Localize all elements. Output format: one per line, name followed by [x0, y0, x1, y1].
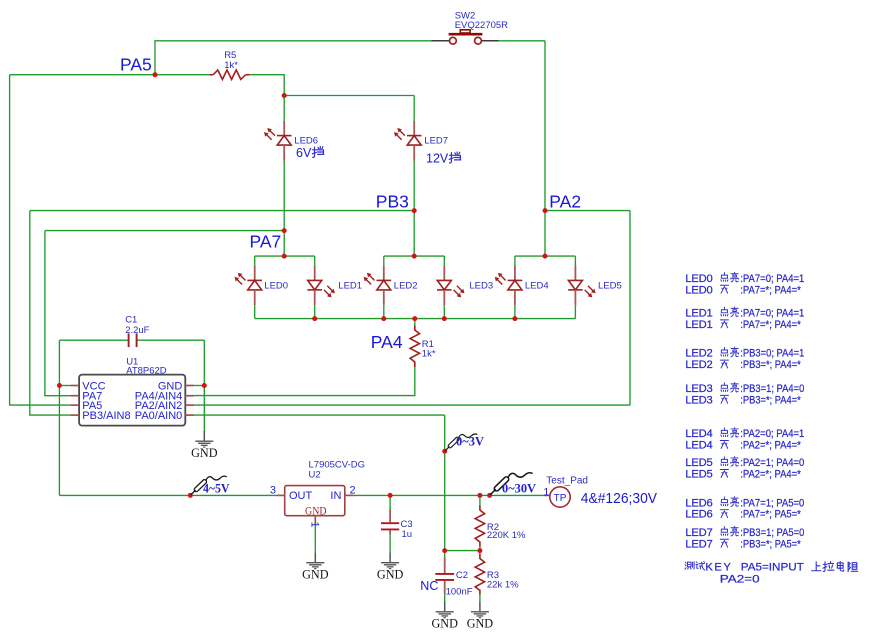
wire pair3 bracket: [515, 255, 576, 257]
LED LED3: [437, 266, 493, 306]
node after R5: [282, 93, 287, 98]
svg-text:U2: U2: [309, 469, 321, 480]
svg-text:Test_Pad: Test_Pad: [546, 475, 588, 486]
svg-text:AT8P62D: AT8P62D: [126, 365, 167, 376]
svg-text::PB3=0; PA4=1: :PB3=0; PA4=1: [740, 348, 804, 360]
text LED7 off condition: [685, 538, 801, 550]
text LED7 on condition: [685, 526, 804, 539]
capacitor C1: [125, 315, 149, 348]
wire node after R5 horizontal: [284, 95, 414, 97]
wire PA7 horizontal: [45, 230, 284, 232]
text test key note: [685, 561, 858, 573]
IC U1 AT8P62D: [70, 356, 194, 425]
svg-text:1: 1: [543, 486, 549, 498]
wire LED6 column lower to pair1 top: [283, 160, 285, 256]
node pair2 top: [412, 254, 417, 259]
svg-text:LED6: LED6: [685, 509, 712, 521]
text LED5 on condition: [685, 457, 804, 470]
svg-text:GND: GND: [305, 506, 327, 518]
node GND at U1: [202, 383, 207, 388]
svg-text:KEY: KEY: [705, 561, 731, 573]
wire LED0 top: [254, 256, 256, 266]
node 4~5V probe point: [188, 493, 193, 498]
wire R1 bottom to PA4 row: [194, 367, 414, 396]
svg-text:PA7: PA7: [250, 231, 282, 251]
probe 4~5V: [191, 476, 230, 495]
svg-text:LED0: LED0: [264, 281, 288, 292]
svg-text:1k*: 1k*: [224, 60, 238, 71]
svg-text::PB3=1; PA4=0: :PB3=1; PA4=0: [740, 383, 804, 395]
svg-text:PA5: PA5: [120, 54, 152, 74]
svg-text::PA2=*; PA4=*: :PA2=*; PA4=*: [740, 469, 801, 481]
svg-text::PA7=0; PA4=1: :PA7=0; PA4=1: [740, 273, 804, 285]
text LED2 off condition: [685, 359, 801, 371]
svg-text::PB3=*; PA4=*: :PB3=*; PA4=*: [740, 394, 801, 406]
ground symbol below U1: [191, 431, 218, 460]
wire PA7 into U1 pin: [44, 395, 70, 397]
wire VCC to U2 OUT: [59, 494, 277, 496]
wire LED6 column upper: [283, 96, 285, 122]
text LED3 off condition: [685, 394, 801, 406]
svg-text:PA2: PA2: [549, 191, 581, 211]
wire LED4 top: [514, 256, 516, 266]
resistor R2: [475, 506, 526, 547]
ground symbol below U2: [302, 552, 329, 581]
wire R2 bottom stub: [479, 546, 481, 551]
text LED5 off condition: [685, 469, 801, 481]
wire LED0 bottom: [254, 306, 256, 319]
annotation text block: LED truth table: [685, 272, 858, 585]
wire pair2 bracket: [384, 255, 445, 257]
LED LED7: [394, 121, 448, 161]
svg-text:6V: 6V: [296, 146, 312, 160]
svg-text:LED2: LED2: [685, 359, 712, 371]
svg-text:LED1: LED1: [685, 308, 712, 320]
svg-text:4~5V: 4~5V: [203, 480, 230, 495]
svg-text:NC: NC: [420, 579, 438, 593]
node pair1 top: [282, 254, 287, 259]
node 0~30V probe point: [487, 493, 492, 498]
node rail LED4: [512, 316, 517, 321]
wire PA2 branch horizontal: [545, 210, 630, 212]
svg-text:1k*: 1k*: [422, 349, 436, 360]
text LED1 off condition: [685, 319, 801, 331]
svg-text:GND: GND: [431, 617, 458, 631]
svg-text:EVQ22705R: EVQ22705R: [455, 20, 508, 31]
svg-text:PA2=0: PA2=0: [720, 574, 760, 586]
svg-text:GND: GND: [467, 617, 494, 631]
svg-text::PA7=*; PA4=*: :PA7=*; PA4=*: [740, 284, 801, 296]
wire PB3 left vertical: [29, 211, 31, 416]
wire R1 top stub: [414, 319, 416, 326]
svg-text:LED4: LED4: [685, 428, 712, 440]
text LED6 off condition: [685, 509, 801, 521]
svg-text:TP: TP: [554, 493, 567, 504]
wire bottom rail PA4: [255, 318, 576, 320]
svg-text:LED1: LED1: [338, 281, 362, 292]
svg-text::PA7=*; PA5=*: :PA7=*; PA5=*: [740, 509, 801, 521]
wire LED4 bottom: [514, 306, 516, 319]
svg-text:GND: GND: [191, 446, 218, 460]
capacitor C3: [381, 509, 413, 540]
wire PA2 vertical: [544, 41, 546, 256]
text LED0 on condition: [685, 272, 804, 285]
svg-text:LED6: LED6: [685, 497, 712, 509]
test pad TP Test_Pad: [543, 475, 588, 507]
node C3 tap: [388, 493, 393, 498]
text LED0 off condition: [685, 284, 801, 296]
svg-text:LED0: LED0: [685, 273, 712, 285]
svg-text:GND: GND: [302, 567, 329, 581]
svg-text::PA2=0; PA4=1: :PA2=0; PA4=1: [740, 428, 804, 440]
wire PA2 row into U1: [194, 404, 630, 406]
svg-text:2.2uF: 2.2uF: [125, 325, 149, 336]
text LED3 on condition: [685, 382, 804, 395]
LED LED0: [235, 266, 289, 306]
svg-text:LED2: LED2: [394, 281, 418, 292]
wire LED2 top: [383, 256, 385, 266]
wire LED1 top: [314, 256, 316, 266]
svg-text:LED1: LED1: [685, 319, 712, 331]
wire 0~3V vertical: [444, 415, 446, 550]
wire LED2 bottom: [383, 306, 385, 319]
node rail LED3: [442, 316, 447, 321]
resistor R5: [210, 50, 250, 79]
svg-text:1: 1: [309, 522, 321, 528]
svg-text:LED4: LED4: [685, 440, 712, 452]
svg-text:LED7: LED7: [424, 136, 448, 147]
ground symbol below C3: [377, 552, 404, 581]
wire LED1 bottom: [314, 306, 316, 319]
node R2 top: [477, 493, 482, 498]
svg-text:PB3: PB3: [376, 191, 409, 211]
wire U2 GND pin: [314, 524, 316, 552]
svg-text:LED3: LED3: [469, 281, 493, 292]
svg-text:OUT: OUT: [289, 490, 313, 502]
value label 6V (gear) for LED6: [296, 146, 324, 160]
wire R5 to LED6 corner: [250, 75, 285, 96]
text LED4 on condition: [685, 428, 804, 441]
node pair3 top: [543, 254, 548, 259]
text LED4 off condition: [685, 440, 801, 452]
node PA5 junction: [153, 72, 158, 77]
node rail LED1: [312, 316, 317, 321]
svg-text:GND: GND: [377, 567, 404, 581]
switch SW2 EVQ22705R: [432, 11, 509, 44]
svg-text:LED6: LED6: [294, 136, 318, 147]
node 0~3V probe point: [442, 449, 447, 454]
text LED6 on condition: [685, 497, 804, 510]
svg-text:1u: 1u: [402, 529, 413, 540]
wire PB3 horizontal: [30, 210, 414, 212]
text LED2 on condition: [685, 347, 804, 360]
LED LED1: [307, 266, 362, 306]
svg-text::PA2=*; PA4=*: :PA2=*; PA4=*: [740, 440, 801, 452]
wire C2 bottom: [444, 594, 446, 602]
capacitor C2: [435, 558, 472, 598]
node divider mid left: [442, 548, 447, 553]
svg-text:0~3V: 0~3V: [456, 434, 485, 449]
wire PA5 into U1 pin: [9, 404, 70, 406]
probe 0~30V: [490, 473, 536, 496]
text LED1 on condition: [685, 307, 804, 320]
svg-text:C2: C2: [456, 570, 468, 581]
wire PA2 right vertical: [629, 211, 631, 406]
wire LED5 bottom: [574, 306, 576, 319]
svg-text:2: 2: [350, 484, 356, 496]
svg-text:PA0/AIN0: PA0/AIN0: [135, 410, 183, 422]
wire LED7 column upper: [413, 96, 415, 122]
svg-text:22k 1%: 22k 1%: [487, 580, 519, 591]
wire C3 bottom: [389, 535, 391, 553]
svg-text:LED3: LED3: [685, 383, 712, 395]
wire LED5 top: [574, 256, 576, 266]
svg-text::PA7=0; PA4=1: :PA7=0; PA4=1: [740, 308, 804, 320]
LED LED4: [495, 266, 549, 306]
node VCC at U1: [57, 383, 62, 388]
wire PB3 into U1 pin: [29, 414, 70, 416]
node PA7 junction: [282, 228, 287, 233]
wire PA5 left vertical: [9, 75, 11, 405]
svg-text:100nF: 100nF: [446, 586, 473, 597]
wire VCC vertical: [58, 340, 60, 495]
wire C2 top: [444, 551, 446, 558]
svg-text:PB3/AIN8: PB3/AIN8: [82, 410, 130, 422]
wire PA7 left vertical: [44, 231, 46, 396]
resistor R3: [475, 554, 519, 595]
svg-text:12V: 12V: [426, 152, 449, 166]
node divider mid right: [477, 548, 482, 553]
svg-text:LED7: LED7: [685, 538, 712, 550]
wire pair1 bracket: [255, 255, 315, 257]
svg-text:3: 3: [270, 484, 276, 496]
wire LED3 bottom: [443, 306, 445, 319]
wire R2 top stub: [479, 495, 481, 506]
wire divider link: [445, 550, 480, 552]
svg-text:PA5=INPUT: PA5=INPUT: [741, 561, 804, 573]
svg-text:LED3: LED3: [685, 394, 712, 406]
wire U2 IN row: [354, 494, 544, 496]
svg-text:LED0: LED0: [685, 284, 712, 296]
svg-text::PA7=*; PA4=*: :PA7=*; PA4=*: [740, 319, 801, 331]
wire PA5 horizontal: [10, 74, 210, 76]
svg-text::PB3=*; PA4=*: :PB3=*; PA4=*: [740, 359, 801, 371]
resistor R1: [410, 326, 436, 368]
wire C1 left: [59, 339, 128, 341]
LED LED6: [264, 121, 318, 161]
svg-text:LED5: LED5: [685, 469, 712, 481]
svg-text:4&#126;30V: 4&#126;30V: [581, 490, 657, 507]
wire VCC to U1 pin: [59, 385, 70, 387]
svg-text:220K 1%: 220K 1%: [487, 530, 526, 541]
wire PA5 vertical to top rail: [154, 41, 156, 75]
wire C1 right: [137, 339, 204, 341]
LED LED5: [568, 266, 622, 306]
node rail LED2: [381, 316, 386, 321]
wire GND pin to dot: [194, 385, 204, 387]
svg-text::PB3=*; PA5=*: :PB3=*; PA5=*: [740, 538, 801, 550]
wire LED7 column lower to pair2 top: [413, 160, 415, 256]
svg-text:LED5: LED5: [598, 281, 622, 292]
node PB3 junction: [412, 208, 417, 213]
svg-text::PA7=1; PA5=0: :PA7=1; PA5=0: [740, 497, 804, 509]
svg-text:LED7: LED7: [685, 527, 712, 539]
wire LED3 top: [443, 256, 445, 266]
svg-text:LED4: LED4: [525, 281, 549, 292]
wire C1 to U1 GND pin vertical: [203, 340, 205, 431]
svg-text:IN: IN: [330, 490, 341, 502]
node PA2 junction: [543, 208, 548, 213]
wire SW2 right to PA2 corner: [499, 40, 546, 42]
ground symbol below C2: [431, 602, 458, 631]
svg-text:0~30V: 0~30V: [502, 480, 537, 495]
text PA2=0 note: [720, 574, 760, 586]
wire R3 top stub: [479, 551, 481, 555]
svg-text::PA2=1; PA4=0: :PA2=1; PA4=0: [740, 457, 804, 469]
probe 0~3V: [445, 434, 484, 451]
value label 12V (gear) for LED7: [426, 152, 461, 166]
svg-text:LED2: LED2: [685, 348, 712, 360]
wire PA0 row: [194, 414, 444, 416]
svg-text:LED5: LED5: [685, 457, 712, 469]
wire R3 bottom stub: [479, 595, 481, 602]
node rail R1: [412, 316, 417, 321]
regulator U2 L7905CV-DG: [270, 459, 365, 527]
svg-text:PA4: PA4: [371, 332, 403, 352]
wire C3 top: [389, 495, 391, 509]
LED LED2: [364, 266, 418, 306]
ground symbol below R3: [467, 602, 494, 631]
wire top rail to SW2 left: [154, 40, 431, 42]
svg-text::PB3=1; PA5=0: :PB3=1; PA5=0: [740, 527, 804, 539]
